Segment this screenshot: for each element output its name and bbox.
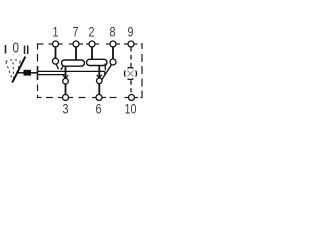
actuator shaft (left) xyxy=(18,72,25,74)
svg-text:3: 3 xyxy=(62,101,68,116)
contact of pin 8 xyxy=(110,59,116,65)
plunger A arrowhead xyxy=(63,75,68,78)
pin 8 stem xyxy=(112,47,114,59)
coupling block xyxy=(24,70,32,76)
changeover blade 8-6 xyxy=(102,65,112,80)
dashed enclosure: bottom edge xyxy=(37,97,143,99)
plunger B pivot circle xyxy=(97,78,103,84)
terminal 9 xyxy=(128,41,134,47)
shaft upper line inside box xyxy=(38,70,105,72)
plunger A pivot circle xyxy=(63,78,69,84)
terminal 6 xyxy=(96,95,102,101)
pin 1 stem xyxy=(55,47,57,58)
switch position label II xyxy=(25,46,28,55)
dashed enclosure: right edge xyxy=(141,43,143,98)
bar B finger xyxy=(104,64,106,71)
illumination lamp (dashed circle with X) xyxy=(124,67,136,79)
pin 7 stem xyxy=(75,47,77,62)
contact of pin 1 xyxy=(53,58,59,64)
pin 10 dashed stem xyxy=(130,81,132,95)
svg-text:1: 1 xyxy=(52,24,58,39)
bridge contact bar B xyxy=(87,59,108,65)
bridge contact bar A xyxy=(62,60,85,66)
shaft lower line inside box xyxy=(38,74,66,76)
terminal 7 xyxy=(73,41,79,47)
terminal 2 xyxy=(89,41,95,47)
svg-text:7: 7 xyxy=(72,24,78,39)
svg-text:2: 2 xyxy=(88,24,94,39)
bar A finger xyxy=(61,66,63,70)
dashed enclosure: top edge xyxy=(37,43,143,45)
bar B plunger xyxy=(98,66,100,95)
switch position label I xyxy=(5,45,7,54)
actuator swing arc (dashed fan) xyxy=(6,60,21,80)
terminal 3 xyxy=(63,95,69,101)
shaft to box xyxy=(31,72,38,74)
terminal 1 xyxy=(53,41,59,47)
svg-text:6: 6 xyxy=(95,101,101,116)
pin 2 stem xyxy=(91,47,93,61)
plunger B arrowhead xyxy=(97,75,102,78)
pin 9 dashed stem xyxy=(130,47,132,67)
contact 1 finger xyxy=(56,64,58,69)
terminal 10 xyxy=(129,95,135,101)
bar A plunger xyxy=(65,66,67,94)
svg-text:0: 0 xyxy=(12,39,18,56)
dashed enclosure: left edge xyxy=(37,43,39,98)
shaft end tick xyxy=(104,71,107,75)
svg-text:9: 9 xyxy=(127,24,133,39)
actuator lever xyxy=(12,57,25,83)
svg-text:8: 8 xyxy=(109,24,115,39)
svg-text:10: 10 xyxy=(124,101,136,116)
terminal 8 xyxy=(110,41,116,47)
